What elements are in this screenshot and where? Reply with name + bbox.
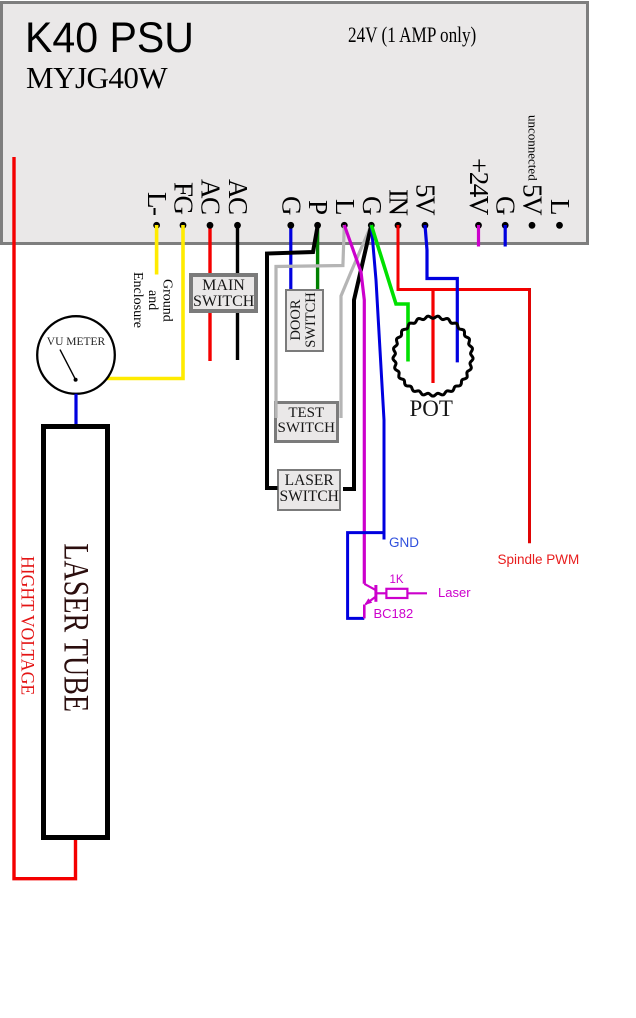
- subtitle MYJG40W: [26, 60, 167, 96]
- label L (laser fire): [331, 199, 358, 214]
- wire +24V magenta stub: [477, 225, 480, 247]
- wire G blue stub: [504, 225, 507, 247]
- wire spindle pwm: [528, 290, 530, 544]
- wire AC red: [208, 225, 211, 361]
- terminal FG: [180, 222, 187, 229]
- TEST SWITCH box: [274, 401, 340, 444]
- wire FG yellow to VU meter: [105, 225, 183, 379]
- note 24V (1 AMP only): [348, 22, 476, 48]
- wire G blue to door switch: [289, 225, 292, 291]
- VU METER body: [37, 316, 115, 394]
- wire G bright green to POT left: [371, 225, 408, 362]
- terminal AC (neutral): [234, 222, 241, 229]
- transistor base bar: [374, 585, 377, 602]
- terminal G (signal): [368, 222, 375, 229]
- label L-: [143, 192, 170, 214]
- svg-text:VU METER: VU METER: [47, 336, 106, 348]
- terminal G (aux): [502, 222, 509, 229]
- label 5V: [412, 184, 439, 214]
- Laser label: [438, 585, 471, 600]
- label G (door): [277, 196, 304, 214]
- POT knob: [393, 316, 473, 396]
- GND label: [389, 535, 419, 550]
- label +24V: [465, 158, 492, 214]
- label AC (black): [224, 179, 251, 214]
- title K40 PSU: [25, 14, 194, 63]
- emitter wire down: [363, 605, 366, 619]
- wire AC black: [236, 225, 239, 360]
- terminal AC (live): [207, 222, 214, 229]
- 1K label: [390, 574, 404, 586]
- terminal G (door): [287, 222, 294, 229]
- LASER TUBE: [41, 424, 110, 840]
- terminal +24V: [475, 222, 482, 229]
- label P: [304, 200, 331, 214]
- label unconnected 5V: [519, 115, 546, 214]
- DOOR SWITCH box: [285, 289, 325, 352]
- wire 5V blue to POT right: [425, 225, 457, 362]
- wire G gray to test switch left: [341, 225, 371, 418]
- wire L gray to test switch right: [276, 225, 344, 418]
- terminal L (laser fire): [341, 222, 348, 229]
- POT label: [410, 396, 453, 422]
- BC182 label: [374, 606, 414, 621]
- terminal IN: [395, 222, 402, 229]
- wire G blue to GND and emitter: [371, 225, 384, 540]
- terminal P: [314, 222, 321, 229]
- terminal 5V (unconnected): [529, 222, 536, 229]
- MAIN SWITCH box: [189, 273, 258, 313]
- LASER SWITCH box: [277, 469, 341, 511]
- resistor 1K body: [386, 589, 407, 598]
- label IN: [385, 189, 412, 215]
- VU METER needle: [60, 350, 76, 380]
- wire P black U to laser switch left: [267, 226, 318, 488]
- label G (aux): [492, 196, 519, 214]
- terminal 5V: [422, 222, 429, 229]
- wire L- yellow stub: [155, 225, 159, 275]
- wire L magenta to transistor collector: [344, 225, 364, 584]
- wire IN red to POT wiper and spindle pwm: [398, 225, 530, 290]
- base wire to resistor: [376, 592, 387, 594]
- transistor Q1 BC182 collector lead: [364, 584, 376, 590]
- PSU body box: [0, 1, 589, 246]
- terminal L (unconnected): [556, 222, 563, 229]
- wire resistor to Laser: [407, 592, 427, 594]
- HIGHT VOLTAGE label: [18, 556, 37, 695]
- Ground and Enclosure label: [129, 272, 173, 328]
- label G (signal): [358, 196, 385, 214]
- label AC (red): [197, 179, 224, 214]
- wire high voltage red loop: [14, 157, 76, 879]
- label L (unconnected): [546, 199, 573, 214]
- terminal L-: [153, 222, 160, 229]
- transistor emitter lead with arrow: [366, 597, 376, 605]
- Spindle PWM label: [498, 552, 580, 567]
- wire P green to door switch: [316, 225, 319, 291]
- wire VU meter blue to tube: [74, 394, 77, 424]
- label FG: [170, 182, 197, 214]
- wire G black to laser switch right: [343, 225, 371, 489]
